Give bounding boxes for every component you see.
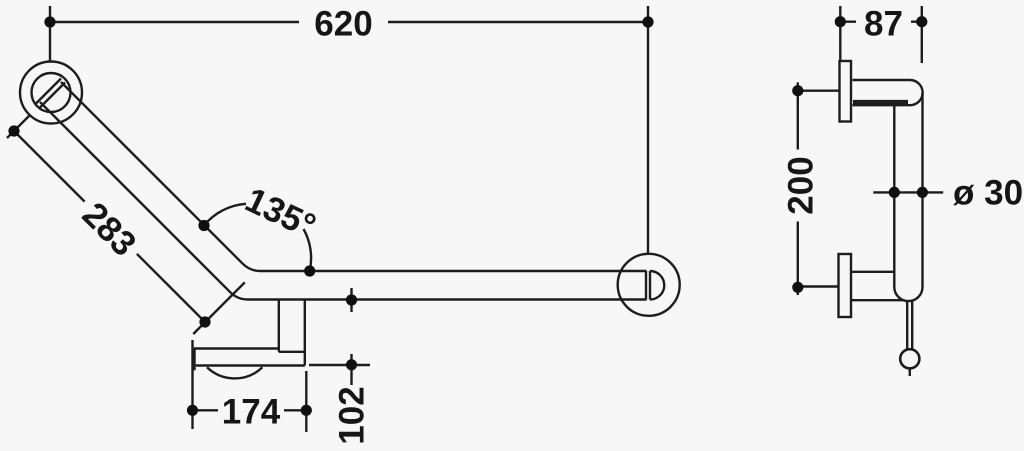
svg-text:87: 87 xyxy=(864,5,903,44)
bracket tube upper thick bottom edge xyxy=(853,100,908,105)
value label 87 xyxy=(856,6,911,38)
wire extension line right of 620 xyxy=(647,6,649,254)
pendant tick xyxy=(909,368,911,376)
wall plate upper xyxy=(840,61,852,122)
pendant stem xyxy=(907,301,912,350)
svg-text:200: 200 xyxy=(781,156,820,214)
dot 200 bottom xyxy=(792,282,803,293)
dot 200 top xyxy=(792,85,803,96)
wall plate lower xyxy=(839,254,852,317)
dot 620 right xyxy=(642,16,653,27)
dimension line diameter 30 xyxy=(873,191,943,193)
svg-text:102: 102 xyxy=(332,386,371,444)
dot 102 bottom xyxy=(346,359,357,370)
grab bar tube bottom edge xyxy=(40,102,647,300)
wire extension 87 right xyxy=(921,6,923,63)
wire extension line left of 620 xyxy=(49,6,51,61)
support tube left edge xyxy=(279,300,305,352)
svg-text:174: 174 xyxy=(222,393,281,432)
svg-text:ø 30: ø 30 xyxy=(953,174,1023,213)
dot dia30 right xyxy=(917,187,928,198)
value label 174 xyxy=(218,394,284,427)
wire extension 283 near bend xyxy=(193,282,245,334)
dot 174 right xyxy=(301,405,312,416)
bracket tube upper outline with rounded end xyxy=(853,80,923,105)
dimension line 620 xyxy=(50,21,648,23)
wire tick 102 bottom xyxy=(350,354,352,385)
wire extension 200 bottom horizontal xyxy=(798,285,839,287)
pendant ball circle xyxy=(900,349,919,368)
dot 283 lower xyxy=(199,316,210,327)
dot 174 left xyxy=(187,405,198,416)
flange F2 tube end cap xyxy=(646,271,664,300)
dimension line 174 xyxy=(193,409,307,411)
value label 102 xyxy=(332,386,371,444)
grab bar tube top edge xyxy=(61,82,647,271)
dot 87 left xyxy=(835,16,846,27)
flange F1 slash mark xyxy=(35,79,65,109)
dimension line 283 xyxy=(14,131,205,322)
value label 200 xyxy=(781,150,821,222)
bar tube right line side view xyxy=(894,93,922,301)
dot 135 on angled tube xyxy=(198,220,209,231)
dot 135 on horizontal tube xyxy=(304,265,315,276)
shelf dish arc xyxy=(207,367,262,378)
flange F2 outer circle xyxy=(618,254,680,316)
dot dia30 left xyxy=(889,187,900,198)
value label 135 degrees xyxy=(239,180,321,246)
angle arc 135 left segment xyxy=(204,204,246,226)
value label 283 xyxy=(69,189,149,269)
dot 620 left xyxy=(44,16,55,27)
wire extension 283 near flange xyxy=(7,116,30,139)
dot 87 right xyxy=(916,16,927,27)
shelf top edge xyxy=(194,347,279,349)
wire tick 102 top xyxy=(350,288,352,312)
support tube right edge xyxy=(304,300,306,366)
dimension line 200 xyxy=(797,82,799,295)
flange F1 inner circle xyxy=(32,73,71,112)
svg-text:620: 620 xyxy=(314,5,372,44)
bracket tube lower bottom edge xyxy=(851,299,903,301)
shelf left end cap xyxy=(192,348,195,370)
wire extension 102 horizontal xyxy=(309,364,370,366)
wire extension 174 right xyxy=(305,371,307,432)
wire extension 200 top horizontal xyxy=(798,89,840,91)
wire extension 174 left xyxy=(191,340,193,429)
dot 102 top xyxy=(346,294,357,305)
flange F1 outer circle xyxy=(20,62,82,124)
shelf bottom edge xyxy=(196,364,305,366)
value label 620 xyxy=(299,5,388,39)
wire extension 87 left xyxy=(839,6,841,60)
dimension line 87 xyxy=(840,21,922,23)
bracket tube lower top edge xyxy=(851,271,894,273)
dot 283 upper xyxy=(8,125,19,136)
angle arc 135 right segment xyxy=(304,229,312,271)
